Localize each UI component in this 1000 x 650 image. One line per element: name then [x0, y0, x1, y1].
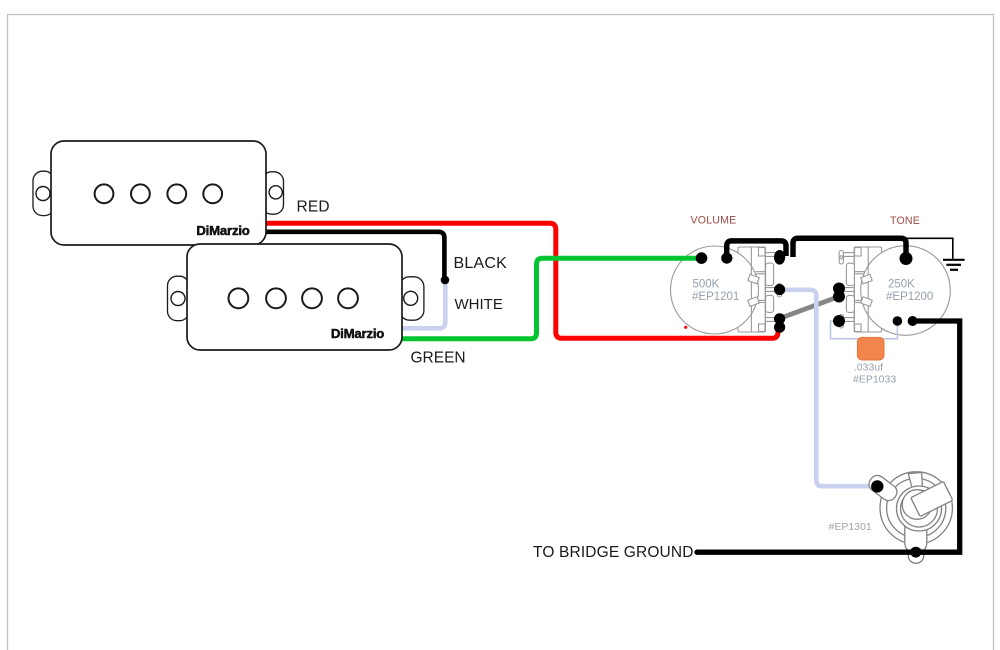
tone mid lug stem	[843, 288, 854, 292]
P1 pole 4	[203, 184, 222, 203]
solder dot volume lug 1	[774, 250, 785, 265]
volume pot U1 body	[671, 246, 782, 334]
lavender wire volume lug2 to jack	[781, 290, 876, 486]
solder dot tone lug 2	[833, 283, 845, 295]
tone casing pads	[846, 263, 854, 285]
jack washer circle	[897, 486, 942, 531]
junction dot black/white	[441, 276, 450, 285]
tone top lug stem	[855, 248, 862, 257]
jack top tab	[866, 472, 900, 503]
solder dot black jumper at volume casing	[721, 253, 732, 264]
jack bottom solder dot	[910, 547, 921, 558]
solder dot red wire at volume lug 3	[774, 322, 785, 333]
volume pot circle	[671, 246, 759, 334]
P1 right ear hole	[269, 186, 282, 199]
solder dot green wire at volume casing	[696, 252, 708, 264]
tone pot U2 body	[839, 246, 950, 336]
jack outer circle	[880, 472, 952, 544]
black output wire from tone	[697, 321, 960, 552]
P2 pole 2	[266, 288, 286, 308]
P1 pole 3	[167, 184, 186, 203]
svg-text:DiMarzio: DiMarzio	[196, 223, 249, 238]
P1 pole 2	[131, 184, 150, 203]
jack bottom hole	[908, 548, 924, 564]
pickup P2 (bridge)	[168, 244, 424, 350]
thin capacitor wire	[831, 321, 898, 339]
wire black from neck pickup	[266, 232, 444, 277]
tone pot circle	[861, 246, 951, 336]
tone tilted tabs	[861, 274, 872, 284]
jack bottom strip	[905, 514, 927, 553]
P2 right ear hole	[404, 291, 418, 305]
svg-text:#EP1201: #EP1201	[692, 291, 739, 303]
capacitor C1 .033uf	[857, 337, 884, 360]
jack innermost circle	[902, 490, 932, 520]
jack top notch	[908, 473, 922, 489]
tone casing front line	[867, 247, 869, 332]
svg-text:500K: 500K	[693, 278, 720, 290]
volume top lug stem	[759, 248, 766, 257]
svg-text:#EP1301: #EP1301	[829, 521, 872, 533]
P2 left ear hole	[171, 292, 185, 306]
solder dot volume lug 2	[774, 284, 785, 295]
tone lug pads	[839, 251, 843, 265]
volume casing back plate	[738, 247, 765, 332]
thin ground wire	[906, 238, 953, 258]
P1 left ear hole	[36, 187, 50, 201]
solder dot capacitor wire at tone casing	[893, 316, 903, 326]
black jumper volume to tone	[793, 238, 906, 257]
svg-text:250K: 250K	[888, 278, 915, 290]
P2 left mounting ear	[168, 276, 190, 321]
ground symbol	[943, 260, 965, 270]
P2 body	[187, 244, 402, 350]
volume casing pads	[766, 263, 774, 286]
svg-text:WHITE: WHITE	[455, 296, 503, 313]
svg-text:TO BRIDGE GROUND: TO BRIDGE GROUND	[533, 544, 694, 561]
svg-text:TONE: TONE	[890, 215, 920, 227]
volume casing front line	[750, 247, 752, 332]
P1 pole 1	[95, 184, 114, 203]
pickup P1 (neck)	[33, 141, 284, 245]
P1 left mounting ear	[33, 171, 54, 215]
svg-text:DiMarzio: DiMarzio	[331, 326, 384, 341]
solder dot output wire at tone casing	[908, 316, 918, 326]
solder dot black jumper at tone casing	[900, 252, 913, 265]
jack ring arc	[887, 478, 946, 537]
volume tilted tabs	[748, 274, 759, 284]
svg-text:#EP1033: #EP1033	[853, 374, 896, 386]
gray wire volume lug3 to tone lug	[780, 297, 840, 319]
svg-text:.033uf: .033uf	[854, 362, 883, 374]
P1 body	[51, 141, 266, 245]
tone lug hole	[840, 256, 843, 259]
output jack J1	[866, 472, 953, 564]
P2 pole 1	[229, 288, 249, 308]
jack blade	[911, 481, 953, 516]
P2 right mounting ear	[400, 277, 424, 320]
wire green	[402, 258, 701, 339]
solder dot tone lug 3	[833, 315, 845, 327]
P2 pole 3	[302, 288, 322, 308]
svg-text:#EP1200: #EP1200	[886, 291, 933, 303]
wire red	[266, 223, 778, 338]
P1 right mounting ear	[262, 172, 284, 214]
solder dot gray wire at tone lug 2	[833, 291, 845, 303]
volume mid lug stem	[765, 288, 776, 292]
solder dot gray wire at volume lug 3	[774, 313, 785, 324]
tone casing back plate	[854, 247, 881, 332]
wire white	[402, 281, 445, 328]
jack inner circle	[901, 490, 938, 527]
volume bottom lug stem	[759, 324, 766, 332]
svg-text:RED: RED	[297, 199, 330, 216]
black jumper volume casing to lug1	[727, 241, 786, 256]
P2 pole 4	[338, 288, 358, 308]
jack tab solder dot	[871, 480, 883, 492]
tone bottom lug stem	[855, 324, 862, 332]
svg-text:GREEN: GREEN	[411, 350, 466, 367]
svg-text:BLACK: BLACK	[454, 255, 508, 272]
volume small red dot	[684, 326, 687, 329]
svg-text:VOLUME: VOLUME	[691, 215, 737, 227]
volume lug pads	[777, 251, 781, 265]
volume tab stems	[755, 272, 765, 303]
tone tab stems	[854, 272, 864, 303]
